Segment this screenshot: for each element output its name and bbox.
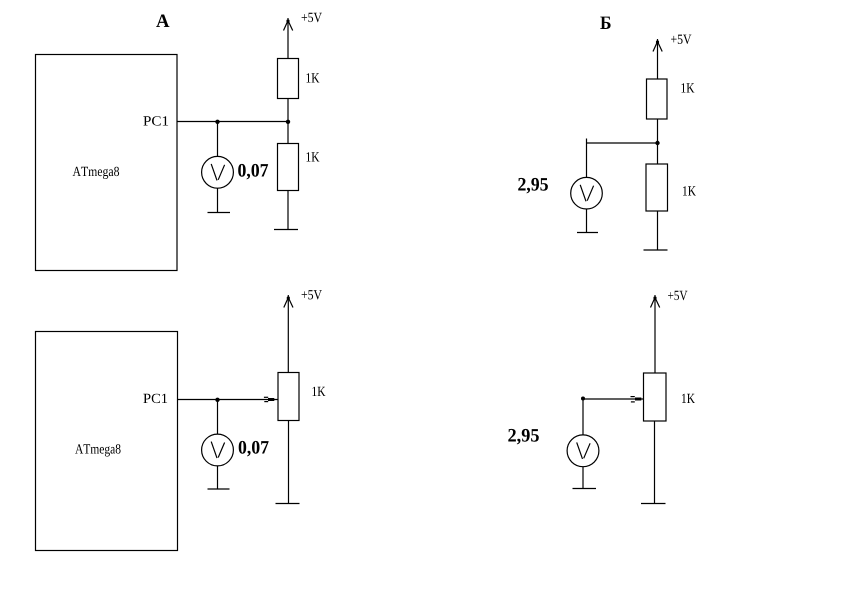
wire R1 to ground (circuit C) [288,421,290,504]
corner dot (circuit D) [581,397,585,401]
wire down to voltmeter (circuit D) [582,399,584,435]
arrowhead into resistor (circuit C) [264,397,274,401]
wire node to voltmeter (circuit C) [217,400,219,435]
junction node on divider (circuit A) [286,120,290,124]
resistor R1 1K (circuit A, upper) [278,59,299,99]
reading 0,07 (circuit C) [239,441,269,457]
ground under voltmeter (circuit A) [208,212,231,214]
ground under R2 (circuit A) [274,229,298,231]
value 1K of R2 (circuit A) [307,152,320,161]
power +5V (circuit A) [284,13,322,59]
ground under R1 (circuit D) [641,503,666,505]
arrowhead into resistor (circuit D) [631,397,642,402]
resistor R1 1K (circuit D) [644,373,667,421]
wire PC1 to resistor (circuit C) [178,399,278,401]
wire down to voltmeter (circuit B) [586,143,588,178]
wire R1 to R2 (circuit B) [657,119,659,164]
wire R2 to ground (circuit A) [287,191,289,230]
wire R1 to ground (circuit D) [654,421,656,504]
title B (circuit B) [600,17,610,29]
value 1K of R1 (circuit B) [682,83,695,92]
ground under voltmeter (circuit C) [208,488,230,490]
label ATmega8 (circuit C) [75,444,121,456]
wire voltmeter to ground (circuit C) [217,466,219,489]
wire tap to resistor with arrow (circuit D) [583,398,644,400]
wire node to voltmeter (circuit A) [217,122,219,157]
resistor R2 1K (circuit A, lower) [278,144,299,191]
resistor R2 1K (circuit B, lower) [646,164,668,211]
power +5V (circuit B) [653,35,691,79]
wire voltmeter to ground (circuit B) [586,209,588,233]
pin label PC1 (circuit C) [143,394,167,403]
label ATmega8 (circuit A) [73,167,120,179]
reading 0,07 (circuit A) [238,164,268,180]
value 1K of R1 (circuit A) [307,73,320,82]
ground under voltmeter (circuit D) [573,488,597,490]
wire voltmeter to ground (circuit A) [217,188,219,212]
IC DD1 ATmega8 (circuit A) [36,55,178,271]
wire node to voltmeter branch (circuit B) [587,142,658,144]
voltmeter PV1 (circuit C) [202,434,234,466]
letter V of voltmeter (circuit B) [580,185,593,202]
power +5V (circuit C) [284,290,322,372]
pin label PC1 (circuit A) [143,116,168,125]
junction node (circuit B) [655,141,659,145]
letter V of voltmeter (circuit C) [211,442,224,459]
voltmeter PV1 (circuit A) [202,156,234,188]
value 1K of R1 (circuit D) [682,394,695,403]
ground under voltmeter (circuit B) [577,232,598,234]
ground under R2 (circuit B) [644,249,668,251]
reading 2,95 (circuit D) [508,429,539,445]
junction dot at voltmeter tap (circuit C) [215,398,219,402]
ground under R1 (circuit C) [276,503,300,505]
letter V of voltmeter (circuit A) [211,164,224,181]
voltmeter PV1 (circuit D) [567,435,599,467]
letter V of voltmeter (circuit D) [577,442,590,459]
wire PC1 to divider node (circuit A) [178,121,289,123]
voltmeter PV1 (circuit B) [571,177,603,209]
wire R2 to ground (circuit B) [657,211,659,250]
wire R1 to R2 (circuit A) [287,99,289,144]
title A (circuit A) [156,15,169,28]
resistor R1 1K (circuit B, upper) [647,79,668,119]
resistor R1 1K (circuit C) [278,373,299,421]
value 1K of R2 (circuit B) [683,186,696,195]
wire voltmeter to ground (circuit D) [582,467,584,489]
reading 2,95 (circuit B) [518,178,548,194]
power +5V (circuit D bottom-right) [651,291,688,373]
value 1K of R1 (circuit C) [313,387,326,396]
corner stub (circuit B) [586,139,588,144]
IC DD1 ATmega8 (circuit C bottom-left) [36,332,178,551]
junction dot at voltmeter tap (circuit A) [215,120,219,124]
